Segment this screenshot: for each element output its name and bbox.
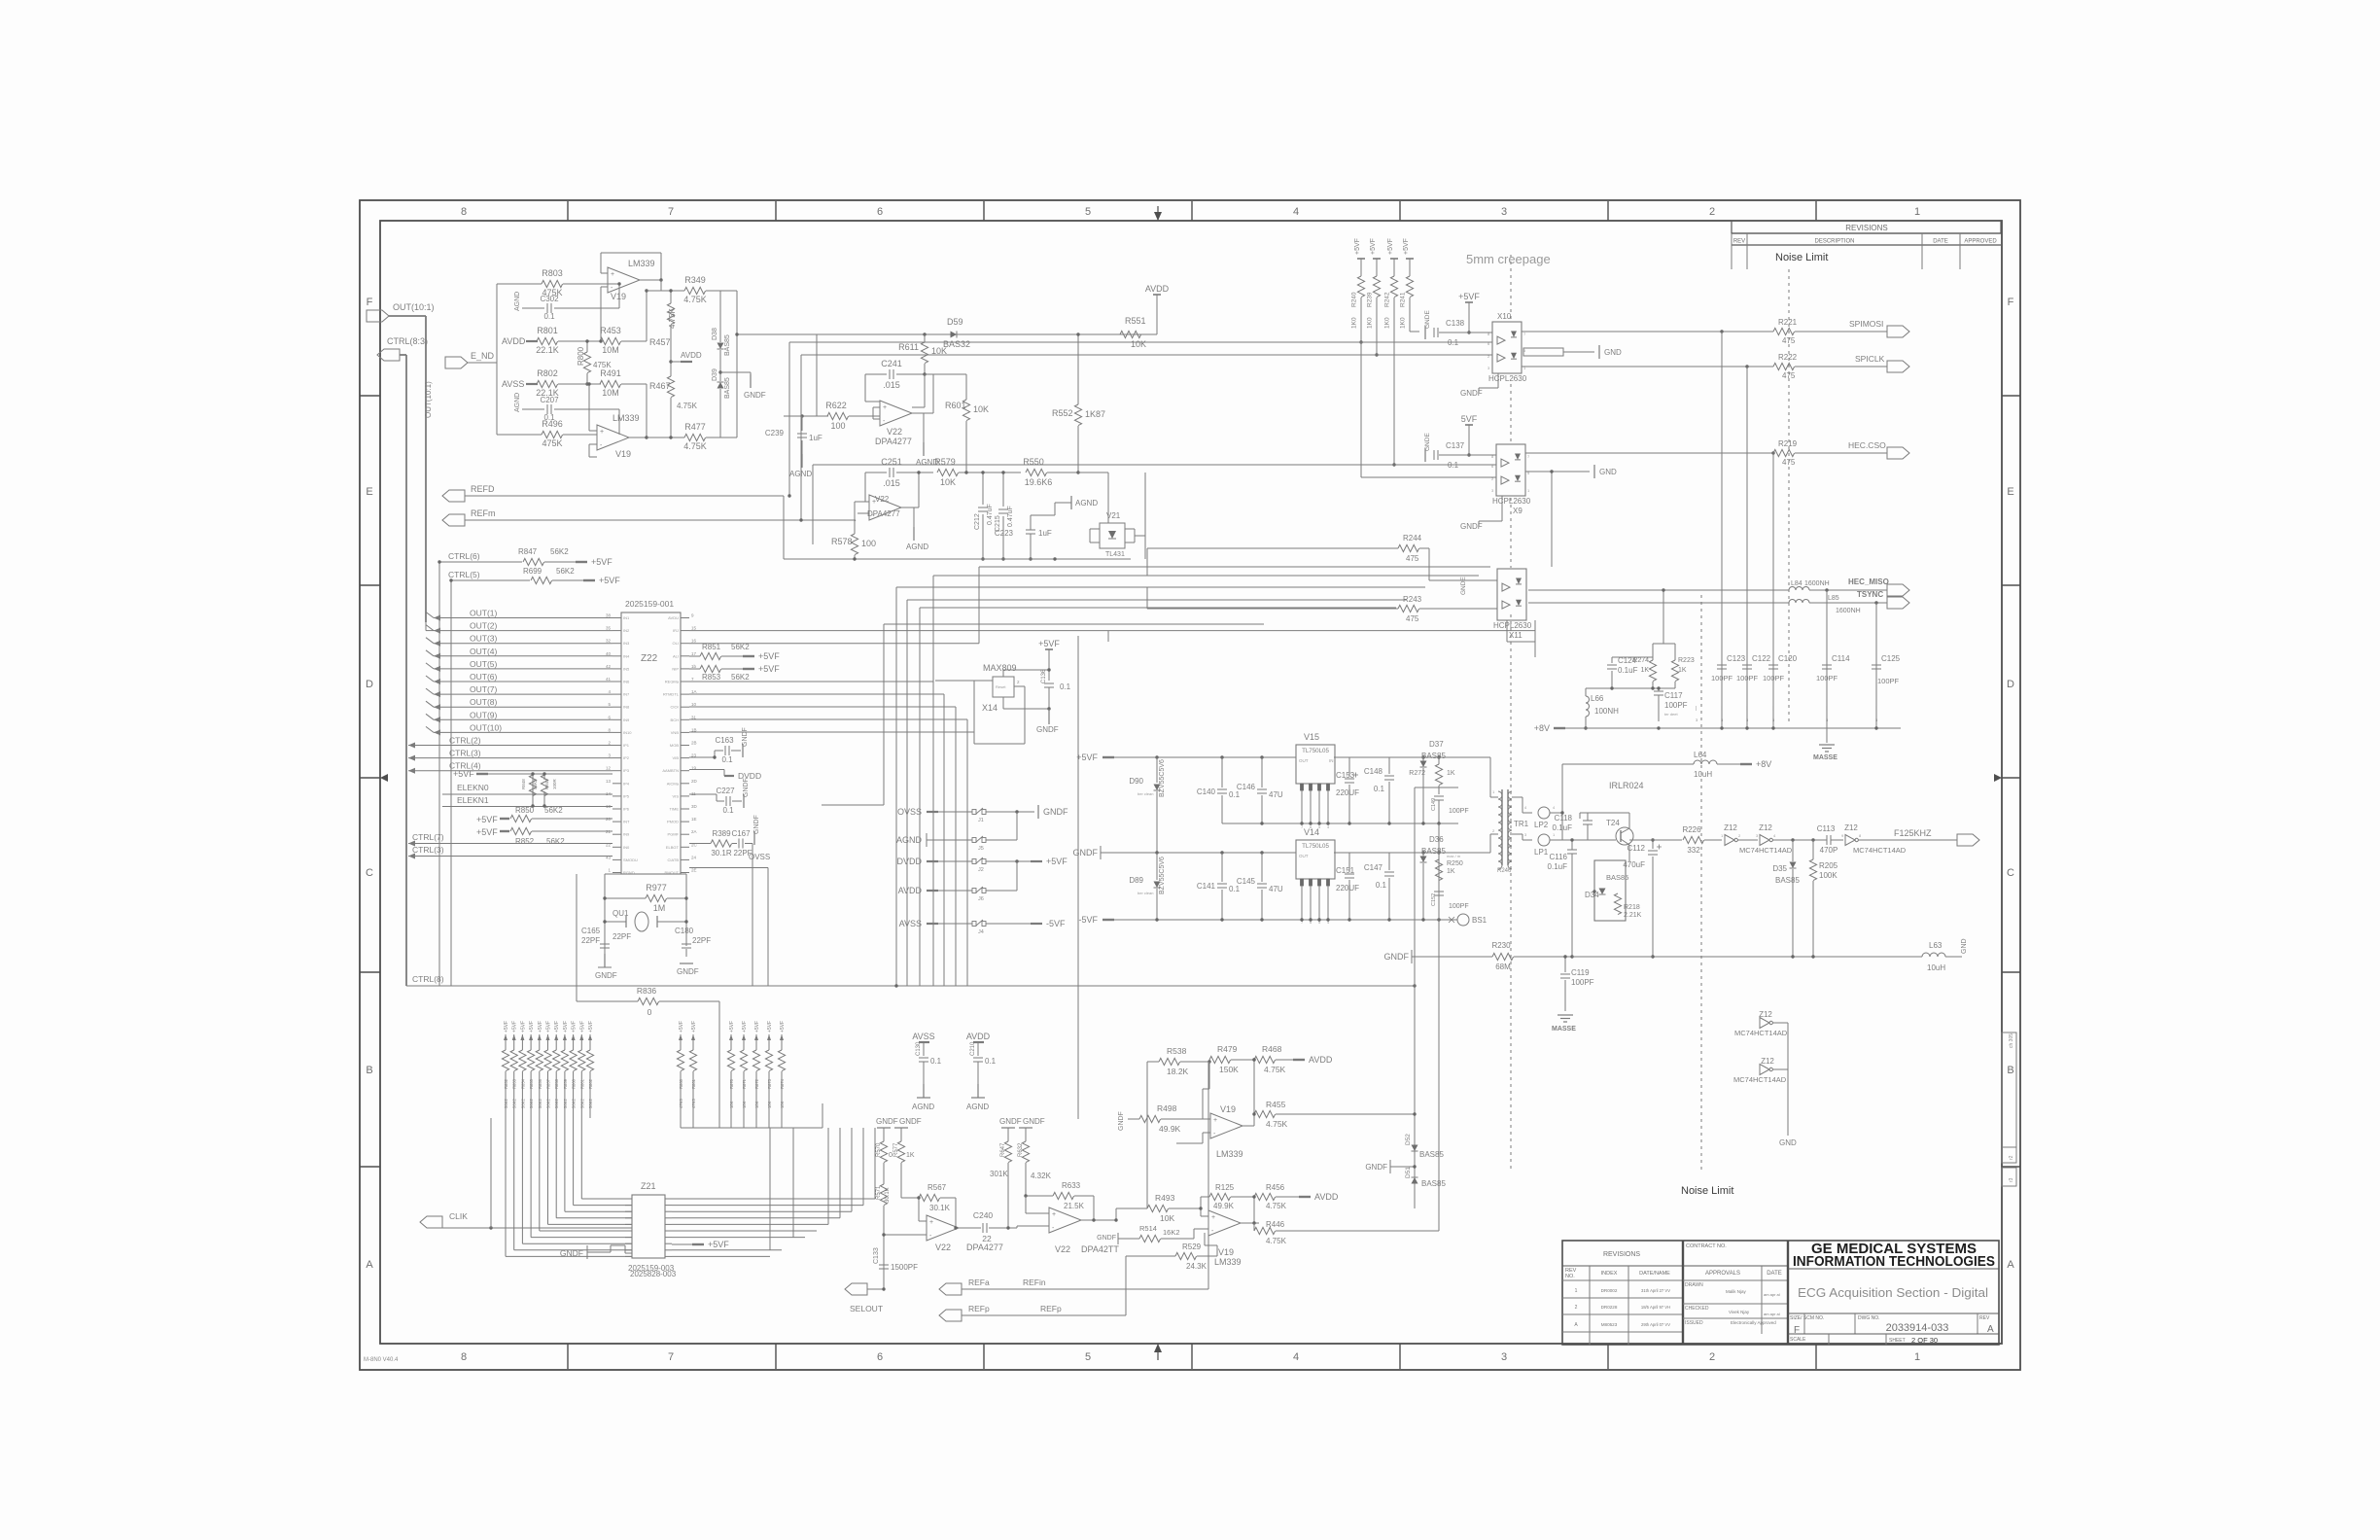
svg-text:22PF: 22PF — [612, 932, 631, 941]
svg-text:REFin: REFin — [1023, 1277, 1046, 1287]
svg-text:4.75K: 4.75K — [1266, 1237, 1287, 1245]
svg-text:22: 22 — [982, 1234, 992, 1243]
IC Z22 2025159-001 body — [621, 612, 681, 874]
svg-text:+: + — [1211, 1214, 1215, 1221]
svg-text:R389: R389 — [712, 829, 731, 838]
svg-text:+5VF: +5VF — [588, 1021, 594, 1032]
svg-text:+5VF: +5VF — [758, 664, 780, 674]
svg-text:+: + — [600, 429, 604, 436]
pullup resistors R240 R239 R242 R241 — [1357, 258, 1365, 260]
svg-text:40: 40 — [606, 651, 612, 656]
inverter Z12 gate A — [1725, 835, 1734, 846]
svg-text:0.47uF: 0.47uF — [987, 504, 994, 525]
wire R455 feed — [1288, 1113, 1415, 1115]
svg-text:INT: INT — [623, 820, 630, 824]
svg-text:220UF: 220UF — [1336, 788, 1359, 797]
svg-text:C130: C130 — [916, 1041, 922, 1056]
svg-text:+5VF: +5VF — [476, 815, 498, 824]
svg-text:DESCRIPTION: DESCRIPTION — [1814, 239, 1854, 245]
inverter Z12 gate B — [1760, 835, 1769, 846]
svg-text:4.75K: 4.75K — [1266, 1119, 1288, 1129]
svg-text:16K2: 16K2 — [1163, 1228, 1180, 1237]
svg-text:R446: R446 — [1266, 1220, 1285, 1229]
svg-text:+5VF: +5VF — [554, 1021, 560, 1032]
svg-text:R218: R218 — [1624, 904, 1640, 911]
svg-text:MC74HCT14AD: MC74HCT14AD — [1853, 846, 1907, 855]
svg-text:IP4: IP4 — [623, 781, 630, 786]
svg-text:T24: T24 — [1606, 819, 1620, 827]
svg-text:AGND: AGND — [1075, 499, 1098, 507]
wire pin drop vertical — [767, 868, 769, 987]
wire Z21 pins up joins — [769, 1128, 771, 1250]
svg-text:C136: C136 — [1041, 669, 1047, 683]
capacitor C227 — [689, 793, 717, 795]
svg-text:0: 0 — [647, 1007, 652, 1017]
svg-text:+5VF: +5VF — [579, 1021, 585, 1032]
svg-text:56K2: 56K2 — [544, 806, 563, 815]
svg-text:OUT: OUT — [1299, 854, 1309, 858]
capacitor C151 220UF — [1348, 853, 1350, 872]
svg-text:0.1uF: 0.1uF — [1553, 823, 1573, 832]
label AVDD mid — [671, 361, 681, 363]
op-amp V19 lower LM339 — [597, 425, 629, 450]
svg-text:R567: R567 — [927, 1183, 947, 1192]
svg-text:R241: R241 — [1400, 292, 1407, 307]
wire cap row verticals — [1721, 332, 1723, 728]
svg-text:DATE: DATE — [1933, 239, 1948, 245]
svg-text:IN7: IN7 — [623, 692, 630, 697]
svg-text:GNDF: GNDF — [753, 815, 760, 834]
svg-text:GNDE: GNDE — [1424, 310, 1431, 329]
capacitor C120 100PF — [1768, 664, 1778, 666]
svg-text:R551: R551 — [1125, 316, 1146, 326]
inductor L85 — [1789, 600, 1809, 603]
svg-text:6: 6 — [877, 206, 883, 218]
wire clock row — [1629, 839, 1682, 841]
svg-text:REFp: REFp — [968, 1304, 990, 1313]
svg-text:R205: R205 — [1819, 861, 1838, 870]
wire X11 out TSYNC — [1528, 602, 1789, 604]
resistor R803 — [497, 283, 542, 285]
revision zone box small 1 — [2002, 1147, 2016, 1163]
ground GNDF crystal right — [685, 949, 687, 957]
svg-text:GNDF: GNDF — [595, 971, 617, 980]
svg-text:D37: D37 — [1429, 740, 1444, 749]
svg-text:IRJ: IRJ — [673, 628, 679, 633]
diode D52 BAS85 — [1412, 1145, 1418, 1152]
svg-text:C180: C180 — [675, 927, 694, 935]
revision zone box tall — [2002, 1032, 2016, 1147]
svg-text:100PF: 100PF — [1664, 701, 1688, 710]
wire bus h11 — [689, 718, 967, 720]
svg-text:56K2: 56K2 — [731, 673, 750, 682]
svg-text:475: 475 — [1406, 614, 1419, 623]
svg-text:41: 41 — [606, 677, 612, 682]
svg-text:IP1: IP1 — [623, 743, 630, 748]
svg-text:6: 6 — [877, 1351, 883, 1363]
svg-text:R529: R529 — [1182, 1242, 1202, 1251]
svg-text:R802: R802 — [537, 368, 558, 378]
revisions table header box — [1732, 221, 2001, 233]
svg-text:150K: 150K — [1219, 1065, 1239, 1074]
wires bank2 bank3 down — [680, 1103, 682, 1128]
svg-text:R230: R230 — [1491, 941, 1511, 950]
wires Z21 right fanout — [672, 1198, 875, 1200]
resistor R551 — [1120, 331, 1141, 337]
svg-text:GNDF: GNDF — [1073, 848, 1099, 857]
svg-text:C123: C123 — [1727, 654, 1746, 663]
svg-text:GNDE: GNDE — [1460, 577, 1467, 595]
svg-text:+5VF: +5VF — [476, 827, 498, 837]
svg-text:CLIK: CLIK — [449, 1211, 468, 1221]
wire opto X10 input lines — [789, 341, 1492, 343]
svg-text:DVDD: DVDD — [738, 771, 761, 781]
svg-text:38: 38 — [606, 613, 612, 618]
svg-text:R468: R468 — [1262, 1044, 1282, 1054]
svg-text:|: | — [1826, 706, 1827, 712]
svg-text:R846: R846 — [544, 779, 549, 789]
svg-text:LP2: LP2 — [1534, 821, 1549, 829]
terminal BS1 — [1457, 914, 1469, 926]
svg-text:DATE: DATE — [1767, 1271, 1782, 1277]
svg-text:HEC.CSO: HEC.CSO — [1848, 440, 1886, 450]
svg-text:R246: R246 — [1497, 868, 1512, 874]
svg-text:J1: J1 — [978, 818, 984, 823]
wire CTRL(7) — [408, 843, 612, 845]
svg-text:GNDF: GNDF — [1023, 1117, 1045, 1126]
svg-text:CTRL(3): CTRL(3) — [412, 845, 444, 855]
resistor R977 1M — [605, 897, 646, 899]
svg-text:D39: D39 — [712, 368, 718, 381]
resistor R456 4.75K — [1254, 1193, 1276, 1200]
shunt regulator V21 TL431 — [1100, 523, 1125, 548]
capacitor C112 470uF — [1652, 840, 1654, 849]
svg-text:R456: R456 — [1266, 1183, 1285, 1192]
svg-text:+5VF: +5VF — [512, 1021, 518, 1032]
svg-text:100PF: 100PF — [1763, 674, 1785, 682]
svg-text:IP2: IP2 — [623, 755, 630, 760]
svg-text:R250: R250 — [1447, 860, 1463, 867]
svg-text:R219: R219 — [1778, 439, 1798, 448]
svg-text:GNDE: GNDE — [1424, 433, 1431, 451]
capacitor C116 — [1567, 849, 1577, 851]
wire bus h3 — [933, 575, 1479, 577]
svg-text:REFp: REFp — [1040, 1304, 1062, 1313]
svg-text:DRAWN: DRAWN — [1685, 1282, 1703, 1288]
svg-text:470P: 470P — [1820, 846, 1838, 855]
svg-text:|: | — [1746, 706, 1747, 712]
svg-text:M80523: M80523 — [1601, 1322, 1618, 1327]
svg-text:D36: D36 — [1429, 835, 1444, 844]
wire long vertical 2 — [1438, 823, 1440, 1231]
svg-text:475: 475 — [1782, 371, 1796, 380]
svg-text:2E: 2E — [691, 868, 697, 873]
svg-text:R243: R243 — [1403, 595, 1422, 604]
svg-text:AVSS: AVSS — [502, 379, 524, 389]
svg-text:2A: 2A — [691, 829, 697, 834]
svg-text:100PF: 100PF — [1571, 978, 1594, 987]
svg-text:R274: R274 — [1632, 657, 1649, 664]
svg-text:HEC_MISO: HEC_MISO — [1848, 577, 1889, 586]
svg-text:|: | — [1721, 706, 1722, 712]
svg-text:31th April 27 VV: 31th April 27 VV — [1641, 1288, 1670, 1293]
svg-text:+5VF: +5VF — [546, 1021, 552, 1032]
svg-text:16: 16 — [691, 639, 697, 644]
label AVDD top right — [1145, 333, 1157, 335]
sheet centre markers — [380, 774, 388, 782]
svg-text:+5VF: +5VF — [1403, 238, 1410, 255]
svg-text:BCH: BCH — [671, 717, 680, 722]
label AGND lower opamp — [913, 507, 915, 530]
diode D59 BAS32 — [951, 332, 958, 338]
svg-text:BAS32: BAS32 — [943, 339, 970, 349]
svg-text:1K0: 1K0 — [1367, 317, 1374, 329]
wire OVSS drop vertical — [752, 850, 753, 986]
svg-text:4.75K: 4.75K — [1264, 1065, 1286, 1074]
op-amp V22 DPA4277 lower — [869, 495, 901, 520]
svg-text:3D: 3D — [691, 804, 698, 809]
svg-text:D89: D89 — [1129, 876, 1143, 885]
svg-text:1uF: 1uF — [1038, 529, 1052, 538]
label AGND right — [1070, 496, 1072, 509]
optocoupler X11 HCPL2630 — [1497, 569, 1526, 620]
svg-text:L84: L84 — [1791, 580, 1802, 587]
svg-text:AGND: AGND — [514, 393, 521, 412]
capacitor C119 100PF — [1564, 957, 1566, 972]
svg-text:D34: D34 — [1585, 891, 1599, 899]
capacitor C146 — [1261, 757, 1263, 787]
svg-text:C147: C147 — [1364, 863, 1383, 872]
regulator V15 TL750L05 — [1296, 745, 1335, 784]
svg-text:REFm: REFm — [471, 508, 496, 518]
svg-text:5: 5 — [1085, 1351, 1091, 1363]
svg-text:+5VF: +5VF — [520, 1021, 526, 1032]
svg-text:GNDF: GNDF — [1036, 725, 1059, 734]
capacitor C141 — [1221, 853, 1223, 882]
capacitor C138 — [1424, 326, 1426, 339]
svg-text:+5VF: +5VF — [1370, 238, 1377, 255]
svg-text:V22: V22 — [887, 427, 902, 437]
svg-text:LM339: LM339 — [1216, 1149, 1243, 1159]
svg-text:REVISIONS: REVISIONS — [1603, 1251, 1640, 1258]
svg-text:AVDU: AVDU — [668, 615, 679, 620]
svg-text:BAS85: BAS85 — [1421, 847, 1446, 856]
resistor R272 1K — [1438, 757, 1440, 764]
wire R538 junction vertical — [1208, 1062, 1210, 1089]
svg-text:1K0: 1K0 — [1384, 317, 1391, 329]
wire X9 mid GND — [1525, 471, 1590, 472]
svg-text:GND: GND — [1599, 468, 1617, 476]
svg-text:D52: D52 — [1405, 1134, 1412, 1145]
capacitor C152 100PF — [1434, 891, 1444, 892]
svg-text:IN4: IN4 — [623, 653, 630, 658]
svg-text:C122: C122 — [1752, 654, 1771, 663]
svg-text:2.21K: 2.21K — [1624, 912, 1642, 919]
svg-text:AVDD: AVDD — [502, 336, 526, 346]
resistor R570 0 — [880, 1141, 887, 1163]
svg-text:D: D — [2007, 679, 2014, 690]
resistor R479 150K — [1209, 1056, 1231, 1063]
diode D35 BAS85 — [1792, 840, 1794, 861]
svg-text:4: 4 — [1293, 1351, 1299, 1363]
resistor R219 — [1773, 449, 1795, 456]
svg-text:1K: 1K — [906, 1152, 915, 1159]
capacitor C148 0.1 — [1388, 757, 1390, 774]
svg-text:R477: R477 — [684, 422, 706, 432]
label GNDF diode mid — [720, 371, 751, 373]
svg-text:R221: R221 — [1778, 318, 1798, 327]
svg-text:+5VF: +5VF — [1387, 238, 1394, 255]
svg-text:C148: C148 — [1364, 767, 1383, 776]
svg-text:OUT(10): OUT(10) — [470, 722, 502, 732]
svg-text:+5VF: +5VF — [1458, 292, 1480, 301]
svg-text:30.1K: 30.1K — [929, 1204, 951, 1212]
svg-text:+5VF: +5VF — [754, 1021, 760, 1032]
svg-text:MOB: MOB — [670, 743, 679, 748]
svg-text:GND: GND — [1779, 1138, 1797, 1147]
svg-text:V19: V19 — [1218, 1247, 1234, 1257]
svg-text:R272: R272 — [1409, 770, 1425, 777]
svg-text:ber clean: ber clean — [1137, 791, 1153, 796]
ground MASSE C119 — [1557, 1014, 1573, 1016]
svg-text:GNDF: GNDF — [742, 727, 749, 747]
svg-text:21.5K: 21.5K — [1064, 1202, 1085, 1210]
label +5VF X10 — [1465, 301, 1473, 303]
wire bus h9 — [689, 693, 944, 695]
svg-text:2025159-001: 2025159-001 — [625, 599, 674, 609]
svg-text:OUT(10:1): OUT(10:1) — [424, 381, 433, 418]
svg-text:ch 305: ch 305 — [2009, 1033, 2014, 1048]
svg-text:10M: 10M — [602, 388, 619, 398]
wire cap row top rail — [1586, 687, 1675, 689]
svg-text:1K: 1K — [1447, 770, 1455, 777]
resistor R222 — [1773, 363, 1795, 369]
capacitor C140 — [1221, 757, 1223, 787]
wire top rail D59 — [817, 333, 1145, 335]
svg-text:C240: C240 — [973, 1210, 994, 1220]
svg-text:DATE/NAME: DATE/NAME — [1639, 1271, 1670, 1277]
svg-text:10uH: 10uH — [1927, 963, 1945, 972]
svg-text:GNDF: GNDF — [1043, 807, 1068, 817]
svg-text:C223: C223 — [995, 529, 1014, 538]
svg-text:R852: R852 — [515, 837, 535, 846]
svg-text:SPIMOSI: SPIMOSI — [1849, 319, 1883, 329]
svg-text:RGND: RGND — [623, 870, 635, 875]
svg-text:E: E — [366, 486, 372, 498]
column tick marks bottom — [567, 1344, 569, 1369]
wires TR1 left pins — [1489, 757, 1491, 797]
svg-text:SPICLK: SPICLK — [1855, 354, 1885, 364]
svg-text:R455: R455 — [1266, 1100, 1286, 1109]
svg-text:DPA42TT: DPA42TT — [1081, 1244, 1119, 1254]
svg-text:LP1: LP1 — [1534, 848, 1549, 857]
connector OUT(10:1) — [367, 310, 389, 322]
svg-text:475: 475 — [1782, 336, 1796, 345]
svg-text:V19: V19 — [611, 292, 626, 301]
svg-text:0.1: 0.1 — [722, 806, 734, 815]
isolation barrier dashed line left — [1510, 255, 1512, 322]
svg-text:L66: L66 — [1591, 694, 1604, 703]
svg-text:A: A — [2007, 1259, 2014, 1271]
svg-text:D90: D90 — [1129, 777, 1143, 786]
svg-text:C145: C145 — [1237, 877, 1256, 886]
svg-text:+5VF: +5VF — [691, 1021, 697, 1032]
capacitor C207 — [522, 408, 544, 410]
wire X10 out SPIMOSI — [1522, 331, 1773, 332]
svg-text:475: 475 — [1782, 458, 1796, 467]
resistor R349 — [681, 290, 684, 292]
resistor R230 68M — [1415, 956, 1492, 958]
svg-text:+5VF: +5VF — [767, 1021, 773, 1032]
svg-text:BZV55C5V6: BZV55C5V6 — [1159, 857, 1166, 894]
noise limit dashed line right — [1788, 269, 1790, 724]
svg-text:L63: L63 — [1929, 941, 1942, 950]
svg-text:CTRL(2): CTRL(2) — [449, 736, 481, 746]
svg-text:REFD: REFD — [471, 484, 495, 494]
svg-text:C210: C210 — [970, 1041, 976, 1056]
svg-text:ELEKN1: ELEKN1 — [457, 795, 489, 805]
wire bus h4 — [896, 586, 1425, 588]
svg-text:R611: R611 — [898, 342, 919, 352]
resistor R467 — [667, 376, 674, 398]
label +8V — [1717, 763, 1740, 765]
resistor R800 — [586, 341, 588, 352]
svg-text:10: 10 — [691, 702, 697, 707]
svg-text:+5VF: +5VF — [758, 651, 780, 661]
svg-text:0.1: 0.1 — [1376, 881, 1387, 890]
row tick marks right — [2002, 395, 2020, 397]
svg-text:10M: 10M — [602, 345, 619, 355]
svg-text:OLI: OLI — [673, 641, 679, 646]
capacitor C117 100PF — [1654, 690, 1663, 692]
wire bus riser 2 — [438, 562, 440, 986]
svg-text:2033914-033: 2033914-033 — [1886, 1322, 1949, 1334]
wire bus h7 — [884, 623, 1264, 625]
svg-text:MAX809: MAX809 — [983, 663, 1017, 673]
wire left bus risers to bottom — [425, 622, 427, 631]
svg-text:+5VF: +5VF — [1076, 752, 1098, 762]
svg-text:56K2: 56K2 — [550, 547, 569, 556]
svg-text:.015: .015 — [883, 380, 900, 390]
svg-text:R493: R493 — [1155, 1193, 1175, 1203]
connector REFp bottom — [939, 1310, 962, 1321]
wire CTRL(3) bottom — [408, 856, 612, 857]
svg-text:C125: C125 — [1881, 654, 1901, 663]
label DVDD — [689, 769, 724, 771]
svg-text:30.1K: 30.1K — [885, 1187, 891, 1203]
resistor R468 4.75K — [1254, 1056, 1276, 1063]
svg-text:CTRL(7): CTRL(7) — [412, 832, 444, 842]
svg-text:22PF: 22PF — [692, 936, 711, 945]
svg-text:+: + — [1213, 1117, 1217, 1124]
svg-text:R977: R977 — [646, 883, 667, 892]
svg-text:R552: R552 — [1052, 408, 1073, 418]
svg-text:ber clean: ber clean — [1137, 891, 1153, 895]
title block thick divider 1 — [1682, 1241, 1684, 1345]
svg-text:0.1: 0.1 — [1060, 682, 1071, 691]
svg-text:DPA4277: DPA4277 — [867, 509, 900, 518]
resistor R205 100K — [1812, 840, 1814, 859]
svg-text:+5VF: +5VF — [1354, 238, 1361, 255]
svg-text:R222: R222 — [1778, 353, 1798, 362]
svg-text:BAS85: BAS85 — [724, 334, 731, 356]
svg-text:0.1: 0.1 — [930, 1057, 942, 1066]
svg-text:BAS85: BAS85 — [1606, 873, 1628, 882]
svg-text:C239: C239 — [765, 429, 785, 437]
svg-text:12: 12 — [606, 766, 612, 771]
regulator V14 TL750L05 — [1296, 840, 1335, 879]
svg-text:100PF: 100PF — [1449, 903, 1469, 910]
